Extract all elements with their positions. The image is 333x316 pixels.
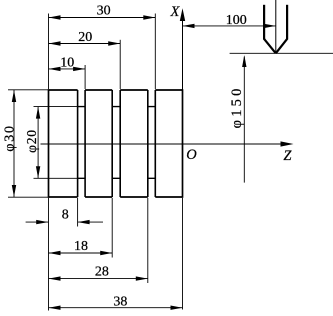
- part right face: [182, 89, 184, 198]
- extension line groove1 left downward: [77, 198, 79, 227]
- X axis line: [182, 21, 184, 91]
- dimension 10 line: [49, 68, 86, 70]
- dimension phi20 arrowheads: [36, 107, 40, 179]
- svg-text:20: 20: [78, 30, 92, 45]
- extension line phi30 bottom: [8, 196, 49, 198]
- dimension 8 arrowheads: [36, 220, 89, 224]
- dimension phi30 line: [13, 90, 15, 197]
- dimension 18 line: [49, 252, 113, 254]
- svg-text:30: 30: [97, 4, 111, 19]
- dimension 30 line: [49, 17, 156, 19]
- extension line groove1 right upward: [84, 65, 86, 89]
- svg-text:φ150: φ150: [229, 85, 245, 128]
- svg-text:10: 10: [60, 56, 74, 71]
- workpiece surface line at tool: [230, 52, 333, 54]
- extension line left face upward: [48, 14, 50, 90]
- dimension phi150 arrowhead: [242, 55, 246, 67]
- extension line phi20 bottom: [34, 177, 78, 179]
- part left face: [48, 89, 50, 198]
- extension line left face downward: [48, 198, 50, 311]
- groove 1 bottom lines: [78, 107, 86, 179]
- svg-text:100: 100: [226, 13, 247, 28]
- groove 1 side walls: [78, 90, 86, 197]
- extension line phi30 top: [8, 89, 49, 91]
- svg-text:38: 38: [113, 295, 127, 310]
- Z axis arrowhead: [281, 141, 294, 146]
- extension line groove3 right upward: [154, 14, 156, 90]
- extension line groove2 left downward: [111, 198, 113, 258]
- centerline / Z axis: [41, 143, 282, 145]
- svg-text:X: X: [169, 4, 180, 20]
- X axis arrowhead: [180, 8, 185, 21]
- extension line right face downward: [182, 198, 184, 310]
- groove 3 side walls: [148, 90, 156, 197]
- groove 2 bottom lines: [112, 107, 120, 179]
- part outline top edge segments: [49, 89, 183, 91]
- tool left edge: [263, 5, 265, 40]
- svg-text:18: 18: [74, 239, 88, 254]
- extension line groove2 right upward: [119, 40, 121, 89]
- groove 3 bottom lines: [148, 107, 156, 179]
- dimension 28 line: [49, 278, 148, 280]
- dimension 18 arrowheads: [49, 251, 113, 255]
- svg-text:8: 8: [62, 207, 69, 222]
- dimension 30 arrowheads: [49, 15, 156, 19]
- tool right cutting flank: [276, 39, 287, 53]
- svg-text:28: 28: [95, 264, 109, 279]
- tool left cutting flank: [264, 39, 276, 53]
- extension line groove3 left downward: [147, 198, 149, 283]
- dimension 38 arrowheads: [49, 306, 183, 310]
- tool centerline: [275, 0, 277, 53]
- dimension phi150 line: [243, 57, 245, 183]
- svg-text:φ20: φ20: [24, 129, 39, 153]
- groove 2 side walls: [112, 90, 120, 197]
- dimension 100 arrowheads: [183, 24, 276, 28]
- dimension phi30 arrowheads: [12, 90, 16, 197]
- dimension 10 arrowheads: [49, 67, 86, 71]
- dimension 38 line: [49, 307, 183, 309]
- svg-text:φ30: φ30: [2, 124, 17, 151]
- dimension 28 arrowheads: [49, 276, 148, 280]
- dimension 100 line: [183, 25, 276, 27]
- tool right edge: [286, 5, 288, 40]
- svg-text:O: O: [186, 147, 197, 163]
- dimension 20 arrowheads: [49, 41, 121, 45]
- dimension phi20 line: [37, 107, 39, 179]
- svg-text:Z: Z: [283, 148, 292, 164]
- dimension 8 line with outside arrows: [26, 221, 103, 223]
- part outline bottom edge segments: [49, 196, 183, 198]
- dimension 20 line: [49, 43, 121, 45]
- extension line phi20 top: [34, 106, 78, 108]
